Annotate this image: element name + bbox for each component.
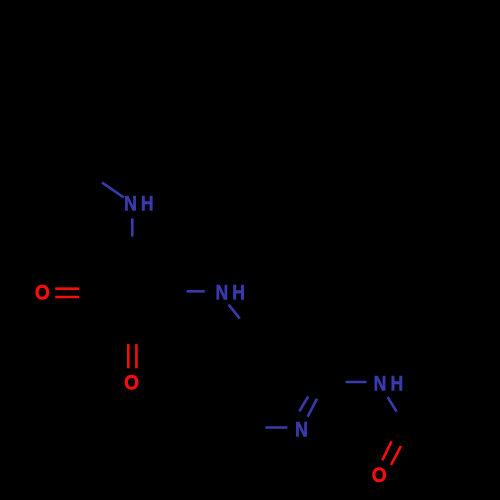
svg-text:O: O [372,464,387,487]
svg-text:NH: NH [215,281,249,305]
svg-text:NH: NH [374,372,408,396]
svg-text:N: N [295,418,312,442]
svg-text:NH: NH [124,192,158,216]
svg-text:O: O [35,282,50,305]
svg-text:O: O [124,372,139,395]
